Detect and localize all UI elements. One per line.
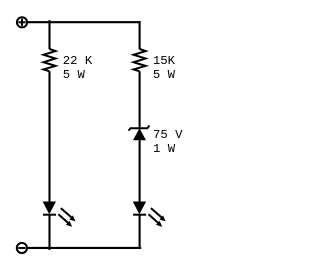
wire right branch upper (node to R2) [139,21,141,49]
negative terminal [17,243,27,253]
resistor R1 [44,49,56,71]
wire left branch middle (R1 to LED D1) [48,71,50,202]
svg-text:22 K: 22 K [63,54,93,68]
svg-text:75 V: 75 V [153,128,183,142]
label R2 value 15K 5 W [153,54,176,82]
positive terminal [17,17,27,27]
LED D1 [43,202,76,227]
wire right branch lower (D2 to bottom rail) [139,214,141,249]
wire right branch (R2 to zener D3) [139,71,141,129]
wire left branch upper (node to R1) [48,20,50,49]
wire bottom rail [27,247,141,249]
resistor R2 [134,49,146,71]
svg-text:5 W: 5 W [153,68,176,82]
zener diode D3 [129,125,150,140]
wire right branch (D3 to LED D2) [139,140,141,202]
svg-text:15K: 15K [153,54,176,68]
svg-text:1 W: 1 W [153,142,176,156]
svg-text:5 W: 5 W [63,68,86,82]
label R1 value 22 K 5 W [63,54,93,82]
wire left branch lower (D1 to negative rail) [48,214,50,250]
LED D2 [133,202,166,227]
label D3 value 75 V 1 W [153,128,183,156]
wire top rail [27,21,140,23]
